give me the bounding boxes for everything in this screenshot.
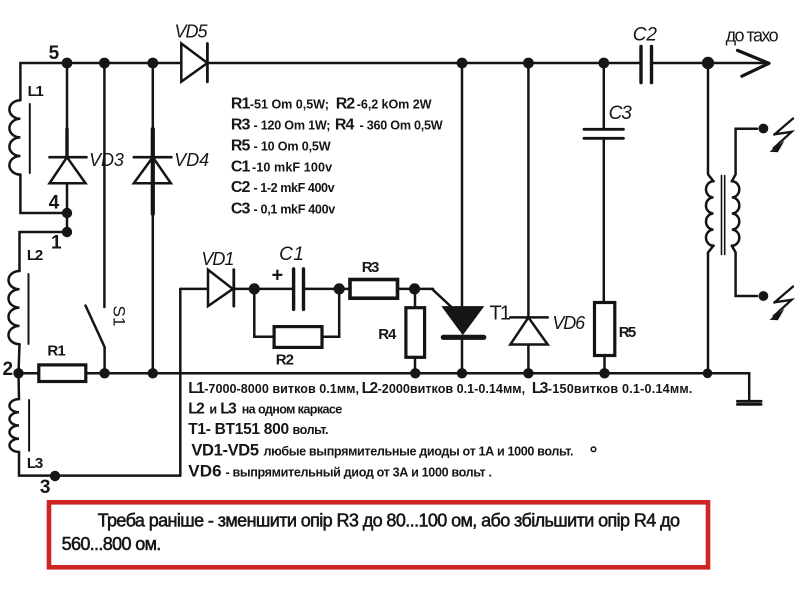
svg-text:L3: L3 [532, 380, 549, 397]
node T1 top dot [457, 58, 468, 69]
L2 core line [28, 274, 30, 344]
svg-text:L1: L1 [188, 380, 205, 397]
svg-text:C1: C1 [279, 244, 304, 265]
resistor R4 wires [414, 289, 417, 373]
svg-text:+: + [272, 265, 284, 287]
node R4 bottom dot [410, 368, 420, 378]
node 3 dot [50, 471, 60, 481]
node R3-R4 dot [409, 283, 420, 294]
node transformer top dot [702, 57, 714, 69]
wire L1 bottom to node 4 [20, 175, 66, 213]
values text line 1: R1 R2 [231, 96, 432, 113]
transformer primary wire [708, 63, 714, 181]
values text line 4: C1 [231, 159, 332, 176]
svg-text:C2: C2 [231, 179, 251, 196]
secondary bottom terminal dot [759, 291, 769, 301]
svg-text:S1: S1 [110, 306, 129, 327]
svg-text:Треба раніше - зменшити опір: Треба раніше - зменшити опір R3 до 80...… [98, 511, 680, 531]
transformer secondary bottom wire [732, 246, 757, 296]
svg-text:R3: R3 [231, 117, 251, 134]
arrow to tachometer [738, 50, 770, 76]
svg-text:- 10 Om 0,5W: - 10 Om 0,5W [254, 140, 331, 154]
notes line 5: VD6 [188, 462, 492, 481]
wire T1 gate diagonal [432, 289, 453, 309]
svg-text:4: 4 [49, 193, 60, 214]
spark gap bottom lightning [774, 287, 794, 317]
values text line 6: C3 [231, 201, 335, 218]
capacitor C1 [294, 269, 304, 309]
svg-text:L3: L3 [27, 455, 43, 472]
wire L3 bottom to riser [19, 452, 180, 476]
svg-text:L1: L1 [28, 83, 44, 100]
resistor R2 [274, 327, 322, 348]
svg-text:- 120 Om 1W;: - 120 Om 1W; [254, 119, 331, 133]
svg-text:-150витков 0.1-0.14мм.: -150витков 0.1-0.14мм. [548, 382, 693, 396]
values text line 3: R5 [231, 138, 331, 155]
svg-text:C3: C3 [609, 103, 633, 124]
svg-text:VD1: VD1 [201, 249, 234, 269]
wire to ground [708, 373, 749, 401]
node 4 dot [62, 208, 72, 218]
capacitor C2 [641, 46, 652, 82]
svg-text:R5: R5 [619, 324, 636, 341]
switch S1 blade [86, 306, 105, 374]
transformer core [722, 176, 725, 255]
svg-text:VD6: VD6 [552, 313, 586, 333]
node VD4 top dot [147, 58, 158, 69]
node VD1-C1 dot [249, 283, 260, 294]
svg-text:VD3: VD3 [89, 150, 124, 170]
transformer secondary winding [732, 181, 740, 245]
wire C1 to R3 [304, 288, 350, 291]
wire L2 bottom to node 2 [19, 344, 20, 373]
wire top rail left segment [20, 62, 181, 65]
svg-text:C1: C1 [231, 159, 251, 176]
wire bottom rail [19, 372, 709, 375]
stray ink dot [591, 447, 596, 452]
wire top rail mid segment [207, 62, 641, 65]
svg-text:-10 mkF 100v: -10 mkF 100v [252, 161, 332, 175]
svg-text:1: 1 [51, 233, 62, 254]
svg-text:- 360 Om 0,5W: - 360 Om 0,5W [360, 119, 443, 133]
node VD6 bottom dot [523, 368, 533, 378]
svg-text:- выпрямительный диод от 3А и: - выпрямительный диод от 3А и 1000 вольт… [226, 466, 493, 480]
svg-text:2: 2 [3, 359, 14, 380]
svg-text:VD6: VD6 [188, 462, 221, 481]
inductor L1 [9, 100, 20, 174]
svg-text:R2: R2 [276, 352, 294, 369]
thyristor T1 [443, 63, 484, 373]
svg-text:-6,2 kOm 2W: -6,2 kOm 2W [357, 98, 432, 112]
node S1 bottom dot [99, 368, 109, 378]
svg-text:L3: L3 [220, 401, 237, 418]
svg-text:вольт.: вольт. [293, 423, 329, 437]
svg-text:-51 Om 0,5W;: -51 Om 0,5W; [250, 98, 329, 112]
node VD6 top dot [523, 58, 534, 69]
inductor L3 [9, 399, 19, 452]
wire node 1 to L2 [20, 232, 67, 271]
values text line 2: R3 R4 [231, 117, 443, 134]
wire top-left corner down to L1 [19, 63, 22, 100]
svg-text:-7000-8000 витков 0.1мм,: -7000-8000 витков 0.1мм, [204, 382, 359, 396]
inductor L2 [9, 271, 20, 344]
L1 core line [29, 104, 31, 173]
svg-text:L2: L2 [27, 247, 43, 264]
spark gap top lightning [774, 119, 794, 149]
svg-text:VD1-VD5: VD1-VD5 [191, 441, 259, 459]
svg-text:C3: C3 [231, 201, 251, 218]
notes line 4: VD1-VD5 [191, 441, 573, 459]
resistor R1 [39, 365, 86, 382]
svg-text:C2: C2 [633, 24, 658, 45]
node R5 bottom dot [599, 368, 609, 378]
transformer primary bottom wire [708, 246, 714, 374]
svg-text:на одном каркасе: на одном каркасе [242, 403, 343, 417]
capacitor C3 wires [603, 63, 606, 303]
resistor R5 [595, 303, 615, 356]
svg-text:и: и [209, 403, 217, 417]
transformer primary winding [706, 181, 714, 245]
switch S1 wire from top [103, 63, 106, 307]
node T1 bottom dot [457, 368, 467, 378]
node 2 dot [13, 368, 23, 378]
node transformer bottom dot [703, 369, 713, 379]
diode VD5 [181, 44, 207, 82]
svg-text:VD5: VD5 [175, 22, 209, 42]
node C1-R3 dot [334, 283, 345, 294]
svg-text:R4: R4 [378, 326, 397, 343]
svg-text:R2: R2 [336, 96, 356, 113]
svg-text:R1: R1 [231, 96, 251, 113]
red note box [49, 502, 708, 567]
node C3 top dot [598, 58, 609, 69]
svg-text:- 1-2 mkF 400v: - 1-2 mkF 400v [254, 181, 335, 195]
secondary top terminal dot [759, 124, 769, 134]
svg-text:VD4: VD4 [174, 150, 209, 170]
svg-text:3: 3 [40, 477, 51, 498]
svg-text:5: 5 [49, 43, 60, 64]
svg-text:T1: T1 [490, 302, 512, 324]
resistor R2 loop wires [254, 289, 339, 337]
values text line 5: C2 [231, 179, 335, 196]
svg-text:560...800 ом.: 560...800 ом. [62, 534, 162, 554]
svg-text:R5: R5 [231, 138, 251, 155]
ground [737, 400, 761, 403]
diode VD1 [208, 270, 234, 306]
svg-text:R4: R4 [335, 117, 355, 134]
node VD4 bottom dot [148, 368, 158, 378]
diode VD6 [510, 63, 547, 373]
node S1 top dot [99, 58, 110, 69]
svg-text:R1: R1 [47, 343, 65, 360]
wire VD1 to C1 [235, 288, 293, 291]
svg-text:T1- BT151 800: T1- BT151 800 [188, 421, 289, 438]
transformer secondary top wire [732, 129, 757, 182]
notes line 1: windings [188, 380, 692, 397]
svg-text:- 0,1 mkF 400v: - 0,1 mkF 400v [254, 203, 336, 217]
L3 core line [28, 400, 30, 451]
resistor R3 [350, 280, 398, 299]
diode VD4 [134, 63, 172, 373]
wire node 2 down to L3 [17, 373, 20, 399]
svg-text:L2: L2 [188, 401, 205, 418]
wire R5 bottom [603, 356, 606, 374]
wire R3 to gate [398, 288, 434, 291]
svg-text:-2000витков 0.1-0.14мм,: -2000витков 0.1-0.14мм, [378, 382, 525, 396]
diode VD3 [50, 63, 87, 232]
wire middle rail to VD1 [180, 288, 208, 291]
node 1 dot [62, 227, 72, 237]
notes line 3: T1 type [188, 421, 328, 438]
capacitor C3 [584, 129, 623, 138]
wire top rail right segment to arrow [652, 62, 767, 65]
node 5 dot [62, 58, 73, 69]
notes line 2: L2 and L3 [188, 401, 342, 418]
svg-text:любые выпрямительные диоды от: любые выпрямительные диоды от 1А и 1000 … [264, 444, 574, 458]
svg-text:до тахо: до тахо [726, 25, 779, 45]
wire riser x=180 [179, 289, 182, 476]
svg-text:R3: R3 [362, 259, 380, 276]
resistor R4 [406, 308, 425, 358]
svg-text:L2: L2 [362, 380, 379, 397]
